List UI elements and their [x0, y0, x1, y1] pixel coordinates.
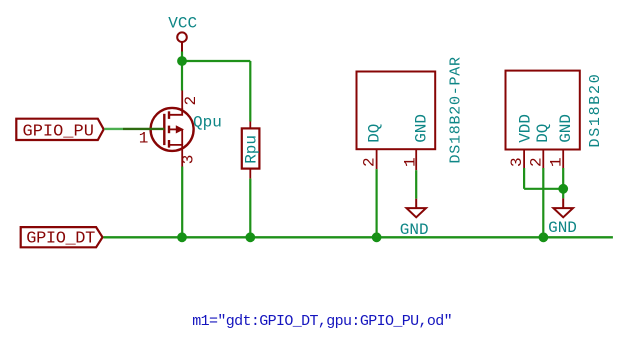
- junction U2 GND node: [558, 184, 568, 194]
- svg-text:Qpu: Qpu: [193, 114, 222, 132]
- pin 3 source stub: [181, 148, 183, 167]
- svg-text:DS18B20-PAR: DS18B20-PAR: [448, 56, 465, 163]
- power symbol VCC: [168, 15, 197, 52]
- junction bus at U1 DQ: [372, 232, 382, 242]
- svg-text:1: 1: [401, 157, 419, 167]
- wire VCC dot to Rpu top (horizontal): [182, 60, 250, 62]
- svg-text:GPIO_DT: GPIO_DT: [26, 229, 95, 248]
- channel segment top: [168, 111, 170, 119]
- svg-text:Rpu: Rpu: [243, 135, 261, 164]
- bulk line with arrow: [169, 128, 182, 130]
- transistor Q1 Qpu: [139, 91, 222, 167]
- svg-text:GND: GND: [548, 219, 577, 237]
- svg-text:GND: GND: [557, 114, 575, 143]
- channel segment bottom: [168, 140, 170, 148]
- arrow head: [176, 125, 184, 133]
- pin 3 stub VDD: [523, 150, 525, 169]
- body circle: [151, 108, 194, 151]
- svg-text:2: 2: [361, 157, 379, 167]
- svg-text:2: 2: [527, 157, 545, 167]
- gate pin segment (dark): [123, 128, 164, 130]
- junction VCC node: [177, 56, 187, 66]
- source inner connection: [169, 145, 182, 148]
- svg-text:2: 2: [182, 96, 200, 106]
- svg-text:GPIO_PU: GPIO_PU: [23, 122, 94, 141]
- wire U1 GND pin down: [415, 170, 417, 199]
- wire main bus GPIO_DT: [103, 236, 613, 238]
- channel segment middle: [168, 126, 170, 134]
- resistor R1 Rpu: [242, 122, 261, 179]
- junction bus at Rpu: [245, 232, 255, 242]
- svg-text:DQ: DQ: [366, 124, 384, 143]
- ground symbol GND (U2): [548, 198, 577, 237]
- wire U2 VDD to GND node horizontal: [524, 188, 563, 190]
- svg-text:1: 1: [139, 129, 149, 147]
- svg-text:3: 3: [508, 157, 526, 167]
- gate bar: [163, 114, 165, 145]
- pin 2 drain stub: [181, 91, 183, 111]
- svg-text:GND: GND: [412, 114, 430, 143]
- wire U2 VDD down: [523, 168, 525, 189]
- wire Rpu bottom to bus: [249, 179, 251, 238]
- pin 2 stub DQ: [542, 150, 544, 169]
- pin 1 stub GND: [562, 150, 564, 169]
- pin 2 stub DQ: [376, 149, 378, 169]
- wire U2 GND pin down: [562, 168, 564, 198]
- source vertical inside: [181, 129, 183, 145]
- hierarchical label GPIO_DT: [21, 227, 103, 248]
- wire VCC dot to drain (vertical): [181, 52, 183, 91]
- svg-text:DQ: DQ: [534, 124, 552, 143]
- svg-text:1: 1: [547, 157, 565, 167]
- wire GPIO_PU to gate (light): [104, 128, 123, 130]
- junction bus at Q source: [177, 232, 187, 242]
- IC U1 DS18B20-PAR: [357, 56, 465, 170]
- svg-text:VCC: VCC: [168, 15, 197, 33]
- wire source to bus: [181, 167, 183, 238]
- svg-text:3: 3: [180, 155, 198, 165]
- ground symbol GND (U1): [400, 199, 429, 239]
- wire Rpu top vertical: [249, 61, 251, 122]
- svg-text:m1="gdt:GPIO_DT,gpu:GPIO_PU,od: m1="gdt:GPIO_DT,gpu:GPIO_PU,od": [192, 313, 452, 330]
- wire U1 DQ to bus: [376, 169, 378, 237]
- svg-text:VDD: VDD: [517, 114, 535, 143]
- IC U2 DS18B20: [506, 71, 605, 168]
- wire U2 DQ to bus: [542, 168, 544, 237]
- hierarchical label GPIO_PU: [16, 119, 103, 142]
- svg-text:DS18B20: DS18B20: [587, 73, 604, 148]
- junction bus at U2 DQ: [539, 232, 549, 242]
- drain inner connection: [169, 108, 182, 115]
- svg-text:GND: GND: [400, 221, 429, 239]
- pin 1 stub GND: [415, 149, 417, 170]
